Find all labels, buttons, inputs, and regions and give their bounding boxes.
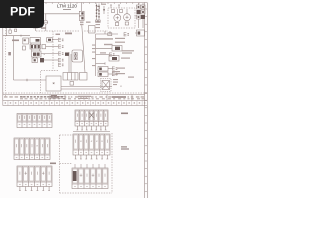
svg-text:»: » (101, 140, 103, 144)
svg-text:»: » (36, 144, 38, 148)
svg-text:«: « (120, 85, 122, 89)
svg-text:«: « (96, 140, 98, 144)
svg-text:«: « (91, 140, 93, 144)
svg-text:PDF: PDF (10, 4, 35, 18)
svg-text:LTM 1120: LTM 1120 (57, 4, 78, 9)
svg-text:«: « (80, 140, 82, 144)
